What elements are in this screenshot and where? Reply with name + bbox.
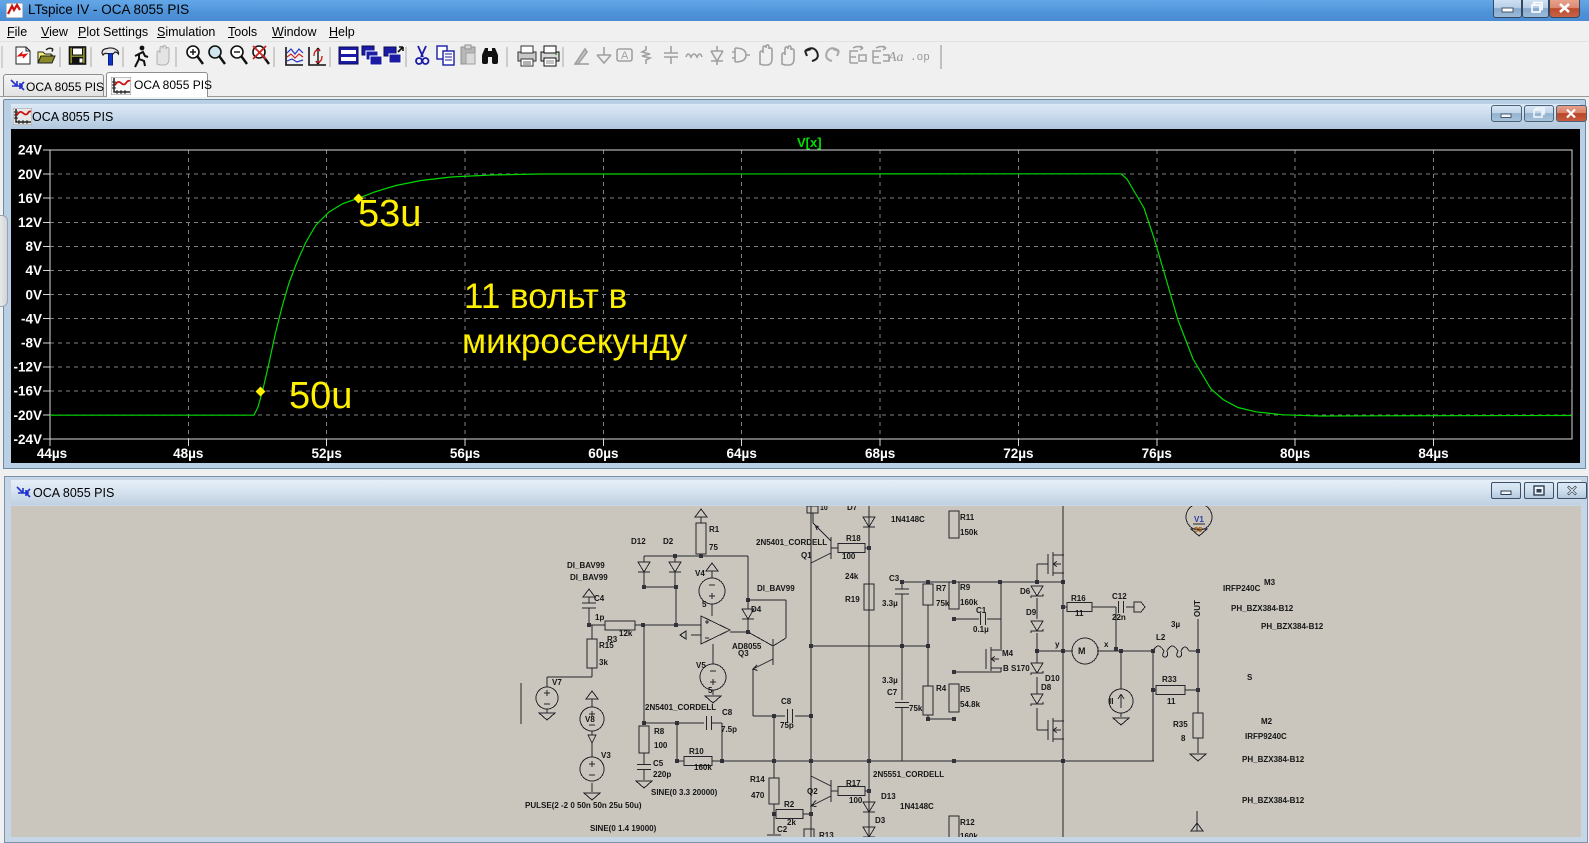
svg-text:D8: D8	[1041, 683, 1052, 692]
svg-text:1N4148C: 1N4148C	[904, 836, 938, 837]
svg-text:R18: R18	[846, 534, 861, 543]
svg-text:16V: 16V	[18, 191, 42, 206]
svg-text:150k: 150k	[960, 528, 978, 537]
svg-text:8V: 8V	[25, 239, 42, 254]
svg-text:PH_BZX384-B12: PH_BZX384-B12	[1242, 796, 1305, 805]
svg-text:35: 35	[1194, 525, 1202, 534]
svg-text:R8: R8	[654, 727, 665, 736]
svg-text:D12: D12	[631, 537, 646, 546]
svg-text:7.5p: 7.5p	[721, 725, 737, 734]
svg-text:80µs: 80µs	[1280, 446, 1310, 461]
svg-text:IRFP9240C: IRFP9240C	[1245, 732, 1287, 741]
svg-text:11: 11	[1167, 697, 1176, 706]
svg-text:470: 470	[751, 791, 765, 800]
svg-text:C3: C3	[889, 574, 900, 583]
svg-text:PH_BZX384-B12: PH_BZX384-B12	[1242, 755, 1305, 764]
svg-text:3µ: 3µ	[1171, 620, 1180, 629]
svg-text:0.1µ: 0.1µ	[973, 625, 989, 634]
svg-text:V1: V1	[1194, 515, 1204, 524]
svg-text:D13: D13	[881, 792, 896, 801]
svg-text:24k: 24k	[845, 572, 859, 581]
svg-text:1p: 1p	[595, 613, 604, 622]
svg-text:68µs: 68µs	[865, 446, 895, 461]
svg-text:M3: M3	[1264, 578, 1276, 587]
svg-text:R17: R17	[846, 779, 861, 788]
svg-text:-20V: -20V	[13, 408, 42, 423]
svg-text:B S170: B S170	[1003, 664, 1030, 673]
svg-text:R10: R10	[689, 747, 704, 756]
svg-text:4V: 4V	[25, 263, 42, 278]
svg-text:R7: R7	[936, 584, 947, 593]
svg-text:1N4148C: 1N4148C	[891, 515, 925, 524]
svg-text:D7: D7	[847, 506, 858, 512]
svg-text:Q1: Q1	[801, 551, 812, 560]
svg-text:V[x]: V[x]	[797, 135, 822, 150]
svg-text:1N4148C: 1N4148C	[900, 802, 934, 811]
svg-text:48µs: 48µs	[173, 446, 203, 461]
svg-text:D9: D9	[1026, 608, 1037, 617]
svg-text:II: II	[1109, 697, 1113, 706]
svg-text:160k: 160k	[694, 763, 712, 772]
svg-text:y: y	[1055, 640, 1060, 649]
svg-text:-8V: -8V	[21, 336, 42, 351]
svg-text:12V: 12V	[18, 215, 42, 230]
svg-text:R4: R4	[936, 684, 947, 693]
svg-text:2N5401_CORDELL: 2N5401_CORDELL	[756, 538, 827, 547]
svg-text:OUT: OUT	[1193, 600, 1202, 617]
svg-text:75: 75	[709, 543, 718, 552]
svg-text:20V: 20V	[18, 167, 42, 182]
svg-text:C5: C5	[653, 759, 664, 768]
svg-text:x: x	[1104, 640, 1109, 649]
svg-text:60µs: 60µs	[588, 446, 618, 461]
svg-text:75k: 75k	[909, 704, 923, 713]
svg-text:PH_BZX384-B12: PH_BZX384-B12	[1231, 604, 1294, 613]
svg-text:V3: V3	[601, 751, 611, 760]
svg-text:76µs: 76µs	[1142, 446, 1172, 461]
svg-text:52µs: 52µs	[312, 446, 342, 461]
svg-text:R16: R16	[1071, 594, 1086, 603]
svg-text:-24V: -24V	[13, 432, 42, 447]
svg-text:S: S	[1247, 673, 1253, 682]
svg-text:R13: R13	[819, 831, 834, 837]
svg-text:100: 100	[849, 796, 863, 805]
svg-text:5: 5	[708, 686, 713, 695]
svg-text:R14: R14	[750, 775, 765, 784]
svg-text:R1: R1	[709, 525, 720, 534]
svg-text:2N5551_CORDELL: 2N5551_CORDELL	[873, 770, 944, 779]
svg-text:10: 10	[820, 506, 828, 512]
svg-text:DI_BAV99: DI_BAV99	[757, 584, 795, 593]
svg-text:12k: 12k	[619, 629, 633, 638]
svg-text:C4: C4	[594, 594, 605, 603]
svg-text:11 вольт в: 11 вольт в	[464, 277, 627, 316]
svg-text:R12: R12	[960, 818, 975, 827]
svg-text:8: 8	[1181, 734, 1186, 743]
svg-text:SINE(0 1.4 19000): SINE(0 1.4 19000)	[590, 824, 657, 833]
svg-text:-4V: -4V	[21, 311, 42, 326]
svg-text:100: 100	[842, 552, 856, 561]
svg-text:DI_BAV99: DI_BAV99	[567, 561, 605, 570]
svg-text:V4: V4	[695, 569, 705, 578]
svg-text:50u: 50u	[289, 375, 352, 417]
svg-text:M2: M2	[1261, 717, 1273, 726]
svg-text:.op: .op	[910, 52, 930, 64]
svg-text:-12V: -12V	[13, 360, 42, 375]
svg-text:Q2: Q2	[807, 787, 818, 796]
svg-text:D4: D4	[751, 605, 762, 614]
svg-text:72µs: 72µs	[1003, 446, 1033, 461]
svg-text:C8: C8	[722, 708, 733, 717]
svg-text:D6: D6	[1020, 587, 1031, 596]
svg-text:R9: R9	[960, 583, 971, 592]
svg-text:C2: C2	[777, 825, 788, 834]
svg-text:R19: R19	[845, 595, 860, 604]
svg-text:75k: 75k	[936, 599, 950, 608]
svg-text:44µs: 44µs	[37, 446, 67, 461]
svg-text:D10: D10	[1045, 674, 1060, 683]
svg-text:Q3: Q3	[738, 649, 749, 658]
svg-text:2N5401_CORDELL: 2N5401_CORDELL	[645, 703, 716, 712]
svg-text:Aa: Aa	[887, 50, 904, 65]
svg-text:56µs: 56µs	[450, 446, 480, 461]
svg-text:L2: L2	[1156, 633, 1166, 642]
svg-text:C8: C8	[781, 697, 792, 706]
svg-text:-16V: -16V	[13, 384, 42, 399]
svg-text:220p: 220p	[653, 770, 671, 779]
svg-text:22n: 22n	[1112, 613, 1126, 622]
svg-text:SINE(0 3.3 20000): SINE(0 3.3 20000)	[651, 788, 718, 797]
svg-text:3k: 3k	[599, 658, 608, 667]
svg-text:M4: M4	[1002, 649, 1014, 658]
svg-text:53u: 53u	[358, 193, 421, 235]
svg-text:0V: 0V	[25, 287, 42, 302]
svg-text:100: 100	[654, 741, 668, 750]
svg-text:A: A	[621, 50, 629, 62]
svg-text:5: 5	[702, 600, 707, 609]
svg-text:DI_BAV99: DI_BAV99	[570, 573, 608, 582]
svg-text:84µs: 84µs	[1418, 446, 1448, 461]
svg-text:R33: R33	[1162, 675, 1177, 684]
svg-text:R35: R35	[1173, 720, 1188, 729]
svg-text:54.8k: 54.8k	[960, 700, 981, 709]
svg-text:2k: 2k	[787, 818, 796, 827]
svg-text:3.3µ: 3.3µ	[882, 599, 898, 608]
svg-text:D2: D2	[663, 537, 674, 546]
svg-text:R3: R3	[607, 635, 618, 644]
svg-text:64µs: 64µs	[727, 446, 757, 461]
svg-text:160k: 160k	[960, 832, 978, 837]
svg-text:PULSE(2 -2 0 50n 50n 25u 50u): PULSE(2 -2 0 50n 50n 25u 50u)	[525, 801, 642, 810]
svg-text:11: 11	[1075, 609, 1084, 618]
svg-text:C7: C7	[887, 688, 898, 697]
svg-text:R11: R11	[960, 513, 975, 522]
svg-text:микросекунду: микросекунду	[462, 322, 688, 361]
svg-text:C12: C12	[1112, 592, 1127, 601]
svg-text:M: M	[1078, 646, 1086, 656]
svg-text:IRFP240C: IRFP240C	[1223, 584, 1261, 593]
svg-text:3.3µ: 3.3µ	[882, 676, 898, 685]
svg-text:V7: V7	[552, 678, 562, 687]
svg-text:R2: R2	[784, 800, 795, 809]
svg-text:C1: C1	[976, 606, 987, 615]
svg-text:D3: D3	[875, 816, 886, 825]
svg-text:V5: V5	[696, 661, 706, 670]
svg-text:R5: R5	[960, 685, 971, 694]
svg-text:24V: 24V	[18, 143, 42, 158]
svg-text:75p: 75p	[780, 721, 794, 730]
svg-text:V8: V8	[585, 715, 595, 724]
svg-text:PH_BZX384-B12: PH_BZX384-B12	[1261, 622, 1324, 631]
